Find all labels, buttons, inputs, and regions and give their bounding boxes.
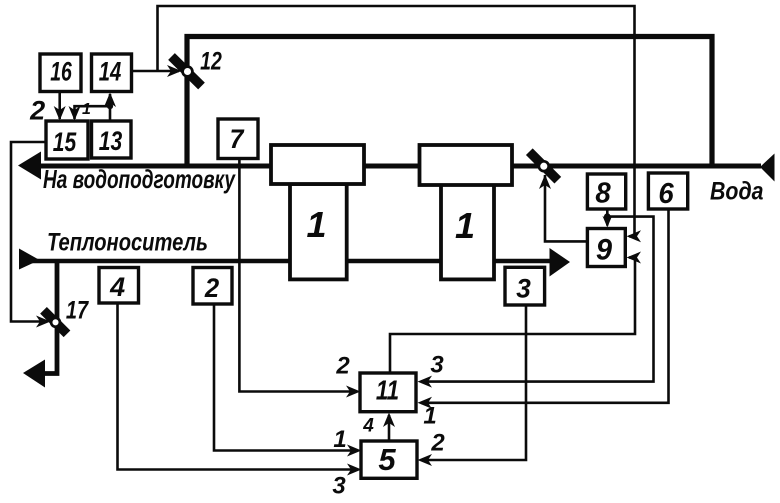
svg-text:4: 4 bbox=[362, 416, 374, 437]
svg-text:1: 1 bbox=[423, 403, 436, 430]
svg-text:1: 1 bbox=[82, 101, 91, 118]
svg-text:На водоподготовку: На водоподготовку bbox=[43, 164, 236, 194]
svg-text:6: 6 bbox=[658, 176, 674, 209]
svg-text:4: 4 bbox=[109, 272, 125, 302]
svg-text:2: 2 bbox=[430, 430, 445, 457]
svg-text:15: 15 bbox=[53, 128, 77, 158]
svg-text:8: 8 bbox=[595, 176, 611, 209]
svg-text:5: 5 bbox=[378, 442, 396, 477]
svg-text:13: 13 bbox=[99, 127, 123, 157]
svg-text:16: 16 bbox=[50, 56, 72, 86]
svg-text:12: 12 bbox=[200, 47, 222, 75]
svg-text:7: 7 bbox=[230, 125, 245, 154]
svg-text:17: 17 bbox=[66, 296, 89, 324]
svg-text:1: 1 bbox=[455, 205, 475, 246]
svg-text:2: 2 bbox=[204, 272, 220, 303]
svg-text:2: 2 bbox=[29, 96, 45, 126]
svg-text:Теплоноситель: Теплоноситель bbox=[47, 229, 208, 257]
svg-text:14: 14 bbox=[99, 57, 122, 88]
svg-text:Вода: Вода bbox=[710, 178, 764, 206]
svg-text:9: 9 bbox=[596, 233, 613, 266]
svg-text:1: 1 bbox=[306, 204, 326, 245]
svg-text:2: 2 bbox=[335, 353, 350, 380]
svg-text:3: 3 bbox=[430, 352, 444, 379]
svg-text:1: 1 bbox=[333, 426, 346, 453]
svg-text:11: 11 bbox=[376, 375, 399, 406]
svg-text:3: 3 bbox=[516, 273, 531, 303]
svg-text:3: 3 bbox=[332, 473, 346, 500]
